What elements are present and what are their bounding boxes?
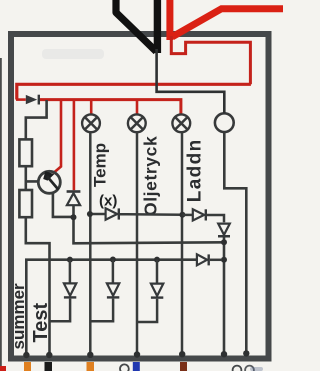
bottom connector ring: [120, 364, 129, 371]
wire below Oljetryck lamp: [136, 132, 139, 355]
bottom connector stub blue (Oljetryck): [133, 362, 140, 371]
thin red loop from supply into box: [171, 36, 250, 84]
svg-text:Test: Test: [30, 303, 52, 343]
bottom junction dots on ground bus: [23, 350, 249, 358]
test diode TD3: [137, 260, 163, 322]
wire below Laddn lamp: [181, 132, 184, 355]
red bus 1: [17, 84, 251, 99]
diode D4: [182, 209, 224, 222]
thick black battery wire (vertical): [154, 0, 161, 53]
wire R1 to R2 with base tee: [26, 166, 39, 190]
svg-text:summer: summer: [9, 283, 28, 350]
resistor R2: [19, 190, 32, 217]
faint scan smudges: [42, 49, 104, 59]
diode D6: [197, 254, 222, 265]
lamp Laddn: [172, 114, 190, 132]
diode D1: [16, 95, 40, 105]
transistor Q1: [38, 171, 71, 217]
lamp Temp: [82, 114, 100, 132]
diode D5 (pointing down): [218, 224, 230, 355]
bottom connector stub orange (summer): [24, 362, 31, 371]
(x) test line with diode D3: [87, 208, 185, 219]
red page mark bottom left: [0, 366, 6, 371]
svg-text:Laddn: Laddn: [185, 138, 206, 202]
wire R2 to ground rail junction: [26, 217, 50, 355]
test diode TD2: [90, 260, 119, 322]
wire from bus2 to resistor R1: [26, 100, 47, 140]
diode D2 (zener to bus2): [67, 190, 224, 243]
test diode TD1: [50, 260, 77, 322]
bottom connector stub black: [45, 362, 53, 371]
lamp Oljetryck: [128, 114, 146, 132]
thick red supply wire (top right): [170, 0, 283, 40]
resistor R1: [19, 139, 32, 166]
plain lamp (no X): [215, 113, 234, 132]
red bus 2: [40, 100, 181, 115]
test rail (y 260): [26, 257, 196, 355]
enclosure border: [11, 34, 269, 359]
bottom connector stub orange (Temp): [87, 362, 95, 371]
bottom connector stub brown (Laddn): [180, 362, 187, 371]
svg-text:(x): (x): [99, 193, 117, 210]
wire below plain lamp to right rail: [224, 132, 246, 354]
svg-text:Oljetryck: Oljetryck: [141, 136, 161, 216]
page left edge line: [0, 58, 2, 371]
svg-text:Temp: Temp: [91, 143, 110, 187]
red drop to Oljetryck lamp: [136, 101, 139, 115]
wire below Temp lamp: [89, 132, 92, 355]
red drop to transistor collector: [53, 101, 61, 174]
red drop to Temp lamp: [90, 101, 93, 115]
black feed wire to plain lamp: [157, 49, 225, 113]
thick black battery wire (diagonal): [116, 0, 156, 52]
bottom right connector rings: [233, 366, 242, 371]
red drop to diode D2 cathode: [73, 101, 76, 190]
